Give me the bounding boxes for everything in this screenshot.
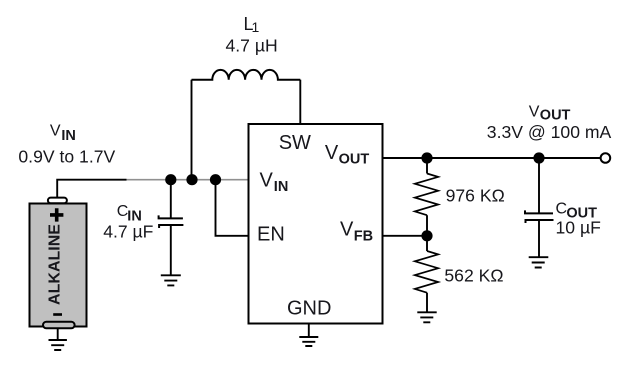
wire: inductor to SW pin	[299, 80, 301, 124]
ground: below COUT	[529, 257, 549, 267]
svg-text:OUT: OUT	[339, 151, 370, 167]
svg-text:IN: IN	[274, 179, 289, 195]
node: junction dot at CIN tap	[165, 174, 176, 185]
svg-text:IN: IN	[61, 128, 76, 144]
wire: EN enable tap	[216, 180, 249, 236]
node: junction dot at feedback divider	[421, 152, 432, 163]
wire: R2 bottom lead	[426, 293, 428, 313]
svg-text:562 KΩ: 562 KΩ	[444, 266, 503, 286]
svg-text:V: V	[50, 123, 61, 140]
svg-text:SW: SW	[279, 132, 311, 154]
wire: R2 top lead	[426, 236, 428, 251]
ground: below CIN	[161, 275, 181, 285]
battery top terminal	[48, 198, 67, 204]
svg-text:ALKALINE: ALKALINE	[47, 224, 64, 305]
capacitor COUT plates	[525, 210, 554, 223]
node: junction dot at EN tap	[210, 174, 221, 185]
svg-text:V: V	[260, 170, 274, 192]
node: junction dot at VFB	[421, 230, 432, 241]
svg-text:GND: GND	[287, 298, 331, 320]
svg-text:V: V	[340, 218, 354, 240]
ground: below IC GND pin	[299, 337, 318, 346]
svg-text:FB: FB	[354, 228, 373, 244]
svg-text:EN: EN	[257, 224, 285, 246]
wire: R1 bottom lead	[426, 215, 428, 236]
svg-text:1: 1	[252, 19, 260, 35]
wire: battery top to main rail (black segment)	[57, 180, 126, 198]
wire: main input rail gray segment to IC VIN pin	[127, 179, 249, 181]
wire: COUT bottom lead	[538, 220, 540, 257]
battery minus mark	[53, 313, 62, 316]
wire: VFB pin to divider	[383, 235, 428, 237]
svg-text:4.7 µF: 4.7 µF	[103, 221, 153, 241]
svg-text:4.7 µH: 4.7 µH	[226, 36, 278, 56]
ground: below battery	[49, 340, 67, 350]
svg-text:0.9V to 1.7V: 0.9V to 1.7V	[18, 146, 115, 166]
battery BT1 body	[30, 204, 87, 327]
battery bottom terminal	[43, 322, 75, 329]
wire: R1 top lead	[426, 158, 428, 174]
svg-text:3.3V @ 100 mA: 3.3V @ 100 mA	[487, 122, 612, 142]
wire: VOUT output rail	[383, 157, 601, 159]
inductor L1	[192, 70, 301, 80]
node: junction dot at L1 tap	[186, 174, 197, 185]
battery plus mark	[50, 208, 63, 221]
svg-text:V: V	[529, 104, 540, 121]
ground: below R2	[417, 312, 436, 322]
svg-text:976 KΩ: 976 KΩ	[446, 186, 505, 206]
wire: GND pin to ground	[308, 324, 310, 338]
IC U1 box	[249, 124, 383, 324]
svg-text:V: V	[325, 142, 339, 164]
wire: battery negative to ground	[57, 328, 59, 340]
wire: CIN bottom lead	[170, 225, 172, 275]
svg-text:10 µF: 10 µF	[556, 218, 602, 238]
wire: COUT top lead	[538, 158, 540, 213]
svg-text:C: C	[556, 201, 568, 218]
terminal: VOUT open circle	[601, 153, 611, 163]
resistor R1 976K zigzag	[415, 174, 438, 216]
wire: CIN top lead	[170, 180, 172, 219]
node: junction dot at COUT	[533, 152, 544, 163]
capacitor CIN plates	[159, 215, 184, 228]
resistor R2 562K zigzag	[415, 251, 438, 293]
wire: inductor left leg down to rail	[191, 80, 193, 180]
